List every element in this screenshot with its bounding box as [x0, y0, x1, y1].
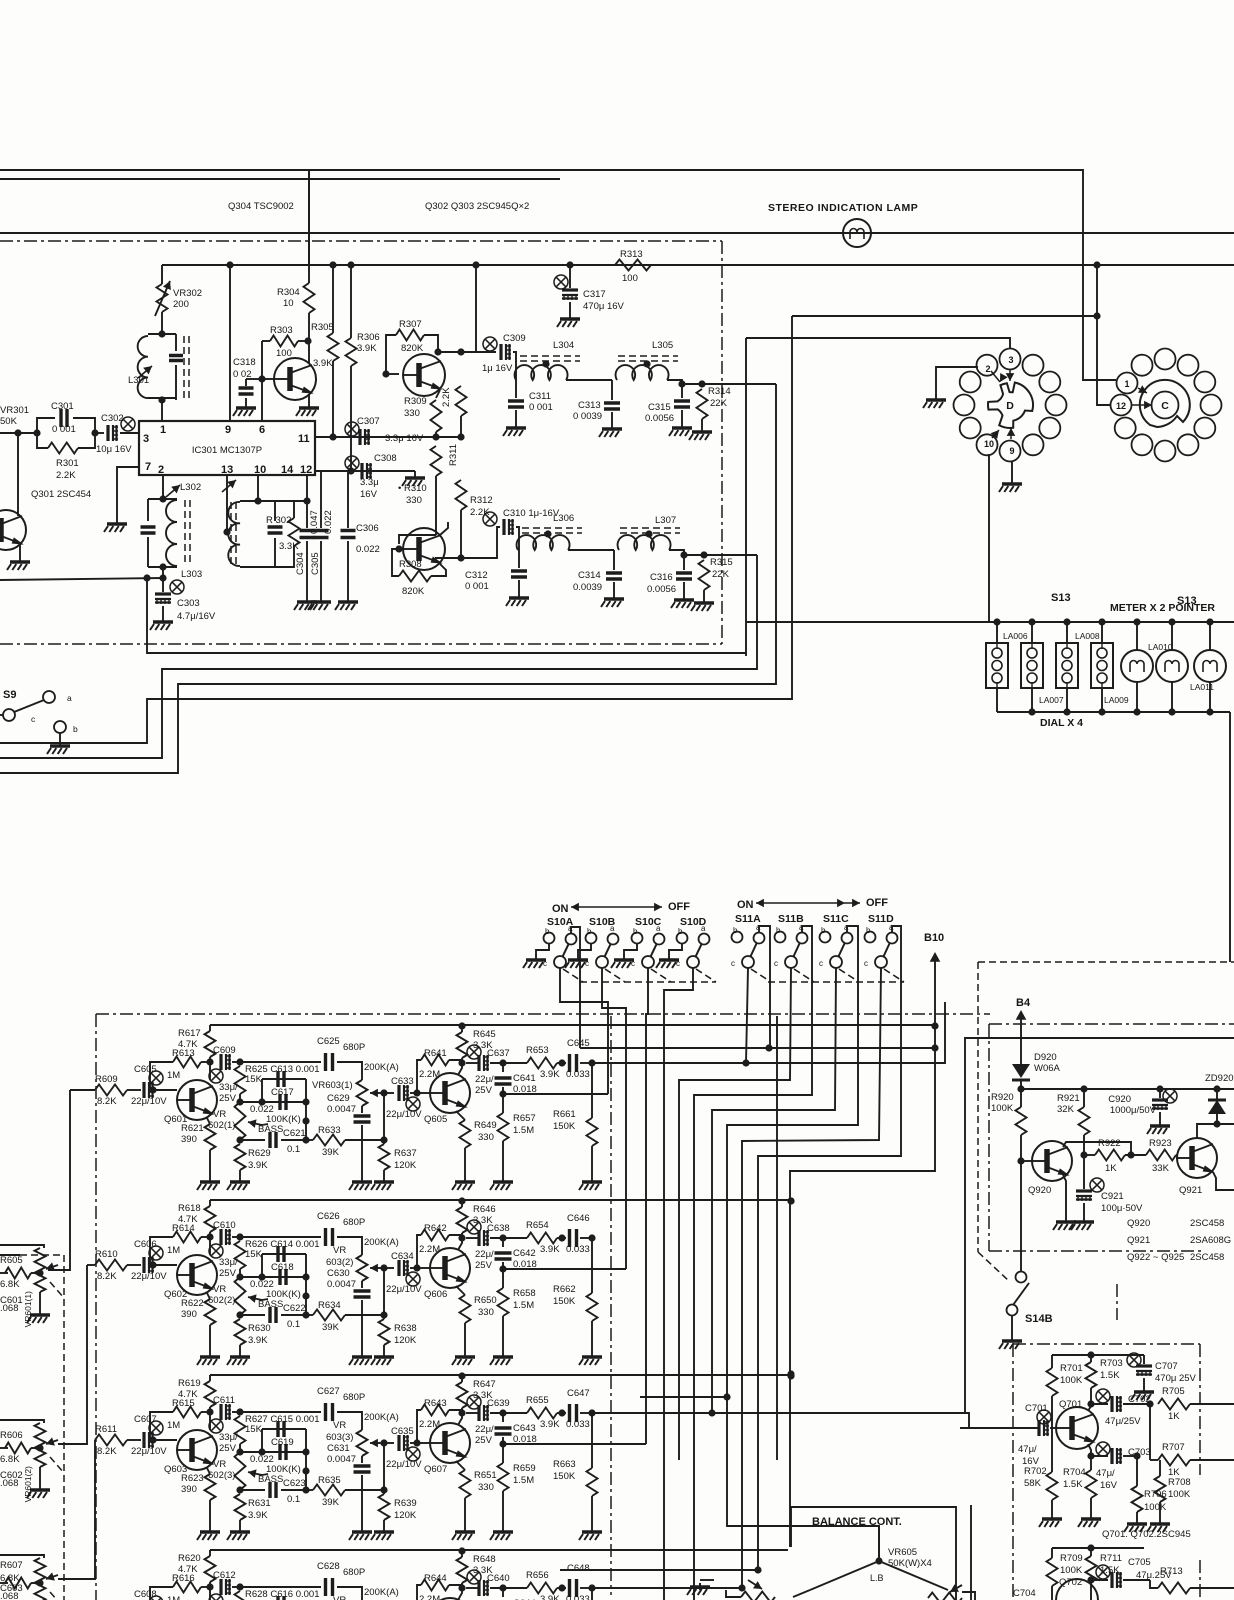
resistor R631 3.9K — [235, 1494, 246, 1520]
svg-text:Q607: Q607 — [424, 1464, 447, 1475]
svg-text:32K: 32K — [1057, 1104, 1075, 1115]
svg-text:LA008: LA008 — [1075, 631, 1100, 641]
ground under C316 — [683, 596, 685, 600]
resistor R630 3.9K — [235, 1319, 246, 1345]
capacitor C609 electrolytic 33u — [209, 1062, 211, 1080]
wire D terminal 10 down to lamp rail — [988, 454, 990, 622]
svg-text:a: a — [701, 924, 706, 933]
svg-text:1μ 16V: 1μ 16V — [482, 363, 513, 374]
ground under C304 — [306, 598, 308, 602]
svg-text:ZD920: ZD920 — [1205, 1073, 1234, 1084]
ground under R659 — [502, 1528, 504, 1532]
svg-text:R654: R654 — [526, 1220, 549, 1231]
svg-text:1.5K: 1.5K — [1100, 1370, 1120, 1381]
svg-text:11: 11 — [298, 433, 310, 445]
resistor R609 8.2K input — [70, 1089, 95, 1091]
svg-text:C313: C313 — [578, 400, 601, 411]
resistor R655 3.9K — [527, 1408, 557, 1419]
transistor Q607 — [430, 1423, 470, 1463]
capacitor C316 — [683, 555, 685, 570]
ground under C303 — [162, 618, 164, 622]
ground under C921 — [1083, 1218, 1085, 1222]
resistor R625 15K — [235, 1066, 246, 1094]
svg-text:22K: 22K — [712, 569, 730, 580]
rotor of D section — [988, 383, 1033, 429]
svg-text:LA006: LA006 — [1003, 631, 1028, 641]
wire: S11A c-contact tap to ch1 output — [746, 968, 748, 1063]
svg-text:R301: R301 — [56, 458, 79, 469]
svg-text:R713: R713 — [1160, 1566, 1183, 1577]
capacitor C303 electrolytic — [162, 578, 164, 592]
resistor R634 39K — [306, 1314, 313, 1316]
resistor R621 390 emitter — [207, 1118, 210, 1124]
resistor R607 6.8K — [0, 1582, 8, 1584]
svg-text:VR: VR — [213, 1109, 226, 1120]
svg-text:0.0056: 0.0056 — [647, 584, 676, 595]
svg-text:C639: C639 — [487, 1398, 510, 1409]
ground under R637 — [383, 1178, 385, 1182]
wire to D terminal 2 with ground — [936, 367, 978, 396]
potentiometer VR601(3) — [35, 1558, 46, 1580]
capacitor C627 680P — [240, 1411, 321, 1413]
capacitor C606 electrolytic input — [127, 1264, 141, 1266]
ground under R622 — [209, 1353, 211, 1357]
svg-text:R644: R644 — [424, 1573, 447, 1584]
resistor R617 4.7K — [209, 1025, 211, 1031]
svg-text:16V: 16V — [1100, 1480, 1118, 1491]
resistor R619 4.7K — [209, 1375, 211, 1381]
wire Q921 emitter out — [1213, 1172, 1234, 1190]
resistor R705 1K — [1158, 1399, 1190, 1410]
svg-text:c: c — [864, 959, 868, 968]
svg-text:390: 390 — [181, 1484, 197, 1495]
capacitor C921 electrolytic 100u/50V — [1090, 1178, 1104, 1192]
svg-text:VR605: VR605 — [888, 1547, 917, 1558]
chain-line: MPX block boundary top — [0, 240, 722, 242]
svg-text:OFF: OFF — [668, 901, 690, 913]
resistor R639 120K — [383, 1443, 385, 1494]
svg-text:0.033: 0.033 — [566, 1244, 590, 1255]
lamp LA007 — [1028, 618, 1035, 625]
svg-text:10μ 16V: 10μ 16V — [96, 444, 132, 455]
ground under R661 — [591, 1178, 593, 1182]
resistor R649 330 emitter — [456, 1111, 465, 1120]
wire: aux line y1397 — [640, 1396, 727, 1398]
svg-text:LA009: LA009 — [1104, 695, 1129, 705]
IC301 MC1307P body — [139, 421, 315, 475]
svg-text:c: c — [774, 959, 778, 968]
svg-text:R709: R709 — [1060, 1553, 1083, 1564]
ground under Q301 emitter — [19, 544, 21, 558]
svg-text:R305: R305 — [311, 322, 334, 333]
svg-text:VR603(1): VR603(1) — [312, 1080, 353, 1091]
wire: lamp feed to D terminal 3 — [746, 338, 1010, 349]
resistor R662 150K — [591, 1238, 593, 1293]
svg-text:R306: R306 — [357, 332, 380, 343]
svg-text:680P: 680P — [343, 1392, 365, 1403]
svg-text:150K: 150K — [553, 1121, 576, 1132]
node on rail above collector feed — [472, 261, 479, 268]
svg-text:R634: R634 — [318, 1300, 341, 1311]
wire Q302 collector node — [434, 348, 441, 355]
resistor R651 330 emitter — [456, 1461, 465, 1470]
wire: a-bus line — [580, 1047, 935, 1049]
svg-text:2.2K: 2.2K — [56, 470, 76, 481]
lamp LA009 — [1098, 618, 1105, 625]
resistor R611 8.2K input — [94, 1439, 96, 1441]
wire top of VR601(2) — [0, 1420, 44, 1423]
lamp: stereo indication lamp — [843, 219, 871, 247]
svg-text:VR301: VR301 — [0, 405, 29, 416]
capacitor C644 0.018 — [502, 1588, 504, 1597]
wire: S11C a-contact bus to balance — [727, 926, 879, 1558]
transistor Q605 — [430, 1073, 470, 1113]
ground under R650 — [464, 1353, 466, 1357]
svg-text:1M: 1M — [167, 1245, 180, 1256]
svg-text:330: 330 — [404, 408, 420, 419]
wire Q606 collector — [458, 1238, 462, 1250]
svg-text:50K: 50K — [0, 416, 18, 427]
resistor R308 — [431, 564, 446, 576]
svg-text:VR: VR — [333, 1420, 346, 1431]
transistor Q608 — [430, 1598, 470, 1600]
svg-text:VR601(2): VR601(2) — [23, 1466, 33, 1503]
svg-text:2SA608G: 2SA608G — [1190, 1235, 1231, 1246]
resistor R661 150K — [591, 1063, 593, 1118]
svg-text:C707: C707 — [1155, 1361, 1178, 1372]
svg-text:C629: C629 — [327, 1093, 350, 1104]
svg-text:3.9K: 3.9K — [248, 1335, 268, 1346]
svg-text:1K: 1K — [1105, 1163, 1117, 1174]
svg-text:15K: 15K — [245, 1424, 263, 1435]
capacitor C611 electrolytic 33u — [209, 1412, 211, 1430]
svg-text:3.3K: 3.3K — [279, 541, 299, 552]
capacitor C313 — [611, 380, 613, 400]
node rail/lamp-switch feed — [1093, 261, 1100, 268]
wire: VR601(3) wiper to channel3 input — [58, 1440, 95, 1579]
node filter1 output — [678, 380, 685, 387]
svg-text:C920: C920 — [1108, 1094, 1131, 1105]
ground under Q920 emitter — [1063, 1175, 1066, 1218]
svg-text:C638: C638 — [487, 1223, 510, 1234]
svg-text:R921: R921 — [1057, 1093, 1080, 1104]
svg-text:1.5M: 1.5M — [513, 1300, 534, 1311]
svg-text:D920: D920 — [1034, 1052, 1057, 1063]
resistor R618 4.7K — [209, 1200, 211, 1206]
wire to terminal 12 — [1144, 401, 1152, 410]
svg-text:C305: C305 — [310, 552, 321, 575]
switch S14B — [1016, 1272, 1027, 1283]
svg-text:R711: R711 — [1100, 1553, 1122, 1564]
svg-text:39K: 39K — [322, 1147, 340, 1158]
node on rail above C317 — [566, 261, 573, 268]
ground under C318 — [245, 404, 247, 408]
wire: channel 2 supply rail — [210, 1199, 791, 1201]
ground for S10B b contact — [578, 944, 591, 956]
wire: S13-D line hairpin to left edge — [0, 318, 792, 743]
svg-text:200K(A): 200K(A) — [364, 1587, 399, 1598]
resistor R635 39K — [306, 1489, 313, 1491]
resistor R304 — [308, 170, 310, 283]
svg-text:C617: C617 — [271, 1087, 294, 1098]
capacitor C307 electrolytic — [315, 436, 461, 438]
svg-text:150K: 150K — [553, 1296, 576, 1307]
svg-text:3.9K: 3.9K — [313, 358, 333, 369]
wire top of VR601(1) — [0, 1245, 44, 1248]
svg-text:R650: R650 — [474, 1295, 497, 1306]
resistor R709 100K — [1051, 1548, 1053, 1558]
svg-text:C304: C304 — [295, 552, 306, 575]
wire node down to R707 — [1149, 1404, 1151, 1460]
svg-text:R646: R646 — [473, 1204, 496, 1215]
ground under S9 b — [59, 742, 61, 746]
svg-text:0.022: 0.022 — [356, 544, 380, 555]
ground under C631 — [361, 1528, 363, 1532]
svg-text:C647: C647 — [567, 1388, 590, 1399]
transistor Q601 — [177, 1080, 217, 1120]
capacitor C317 electrolytic — [569, 265, 571, 288]
resistor R638 120K — [383, 1268, 385, 1319]
node to R311 — [457, 348, 464, 355]
svg-text:R659: R659 — [513, 1463, 536, 1474]
potentiometer VR602(1) 100K(K) BASS — [235, 1102, 246, 1140]
svg-text:6.8K: 6.8K — [0, 1279, 20, 1290]
svg-text:22μ/10V: 22μ/10V — [386, 1284, 422, 1295]
svg-text:3.9K: 3.9K — [248, 1510, 268, 1521]
capacitor C622 0.1 — [240, 1314, 265, 1316]
svg-text:602(2): 602(2) — [208, 1295, 235, 1306]
ground under R702 — [1051, 1515, 1053, 1519]
svg-text:C605: C605 — [134, 1064, 157, 1075]
svg-text:C621: C621 — [283, 1128, 306, 1139]
svg-text:120K: 120K — [394, 1335, 417, 1346]
svg-text:200K(A): 200K(A) — [364, 1237, 399, 1248]
svg-text:R307: R307 — [399, 319, 422, 330]
svg-text:200: 200 — [173, 299, 189, 310]
svg-text:120K: 120K — [394, 1510, 417, 1521]
ground under C305 — [320, 598, 322, 602]
wire: VR301 to C301/R301 — [0, 432, 37, 434]
svg-text:C630: C630 — [327, 1268, 350, 1279]
wire L302 to C303 junction — [162, 567, 164, 578]
svg-text:b: b — [821, 926, 826, 935]
svg-text:2.2K: 2.2K — [441, 387, 452, 407]
resistor R610 8.2K input — [87, 1264, 95, 1266]
wire Q920 collector to R922/R923 node — [1063, 1142, 1131, 1155]
svg-text:0.1: 0.1 — [287, 1144, 300, 1155]
wire: balance box top — [791, 1507, 956, 1600]
wire: S11B a-contact bus — [694, 926, 812, 1600]
svg-text:10: 10 — [254, 464, 266, 476]
svg-text:47μ/: 47μ/ — [1096, 1468, 1115, 1479]
wire top of VR601(3) — [0, 1555, 44, 1558]
svg-text:C646: C646 — [567, 1213, 590, 1224]
wire B10 with arrow — [934, 958, 936, 1026]
svg-text:C648: C648 — [567, 1563, 590, 1574]
gang link dashes of VR601(3) — [50, 1592, 64, 1600]
resistor R633 39K — [306, 1139, 313, 1141]
svg-text:C643: C643 — [513, 1423, 536, 1434]
capacitor C707 electrolytic 470u — [1127, 1353, 1141, 1367]
capacitor C647 0.033 — [570, 1404, 577, 1422]
resistor R641 2.2M — [417, 1060, 421, 1093]
ground under R621 — [209, 1178, 211, 1182]
resistor R657 1.5M — [502, 1094, 504, 1113]
svg-text:33K: 33K — [1152, 1163, 1170, 1174]
svg-text:b: b — [678, 927, 683, 936]
capacitor C920 electrolytic 1000u/50V — [1163, 1089, 1177, 1103]
svg-text:R708: R708 — [1168, 1477, 1191, 1488]
ground under R658 — [502, 1353, 504, 1357]
svg-text:R619: R619 — [178, 1378, 201, 1389]
wire Q701 collector — [1088, 1404, 1091, 1411]
svg-text:47μ/: 47μ/ — [1018, 1444, 1037, 1455]
svg-text:22μ/10V: 22μ/10V — [386, 1459, 422, 1470]
svg-text:C302: C302 — [101, 413, 124, 424]
wire: top supply line to lamp switch — [0, 170, 1106, 380]
svg-text:C633: C633 — [391, 1076, 414, 1087]
ground under R706 — [1136, 1520, 1138, 1524]
svg-text:c: c — [731, 959, 735, 968]
capacitor C314 — [613, 550, 615, 570]
wire: second buffer rail — [1052, 1547, 1144, 1549]
wire filter1 baseline — [513, 352, 516, 380]
svg-text:C921: C921 — [1101, 1191, 1124, 1202]
svg-text:58K: 58K — [1024, 1478, 1042, 1489]
wire: vertical bus 777 lower half — [776, 1016, 778, 1460]
capacitor C629 0.0047 — [361, 1106, 363, 1113]
capacitor C645 0.033 — [570, 1054, 577, 1072]
svg-text:820K: 820K — [401, 343, 424, 354]
gang link dashes of VR601(2) — [50, 1457, 64, 1473]
capacitor C306 — [347, 471, 349, 528]
wire: bottom rail down right edge — [1229, 712, 1231, 962]
svg-text:C631: C631 — [327, 1443, 350, 1454]
svg-text:C612: C612 — [213, 1570, 236, 1581]
svg-text:0 0039: 0 0039 — [573, 411, 602, 422]
svg-text:C606: C606 — [134, 1239, 157, 1250]
transistor Q302 — [403, 354, 445, 396]
svg-text:C301: C301 — [51, 401, 74, 412]
wire: S11D a-contact bus — [758, 926, 901, 1570]
transistor Q921 — [1177, 1138, 1217, 1178]
ground under C314 — [613, 595, 615, 599]
wire: filter2 output hairpin to left edge — [0, 555, 757, 758]
wire: ch4 output east — [592, 1587, 742, 1589]
svg-text:100μ·50V: 100μ·50V — [1101, 1203, 1143, 1214]
resistor R645 3.3K — [458, 1022, 465, 1029]
wire R920 node down to S14B — [1020, 1161, 1022, 1272]
wire C642 node to switch bus — [503, 1268, 626, 1270]
capacitor C634 electrolytic coupling — [384, 1267, 394, 1269]
svg-text:C610: C610 — [213, 1220, 236, 1231]
svg-text:22μ/10V: 22μ/10V — [386, 1109, 422, 1120]
svg-text:C315: C315 — [648, 402, 671, 413]
wire: S11A a-contact riser — [759, 926, 770, 1048]
capacitor C308 electrolytic — [315, 470, 415, 472]
wire Q303 collector to filter2 input — [440, 522, 448, 535]
svg-text:b: b — [545, 927, 550, 936]
svg-text:390: 390 — [181, 1134, 197, 1145]
resistor R706 100K — [1136, 1456, 1138, 1486]
svg-text:1M: 1M — [167, 1595, 180, 1600]
capacitor C309 electrolytic — [483, 337, 497, 351]
svg-text:VR601(1): VR601(1) — [23, 1291, 33, 1328]
transistor Q602 — [177, 1255, 217, 1295]
svg-text:C627: C627 — [317, 1386, 340, 1397]
potentiometer VR605 right half — [879, 1561, 948, 1590]
svg-text:820K: 820K — [402, 586, 425, 597]
svg-text:330: 330 — [478, 1482, 494, 1493]
svg-text:2: 2 — [158, 464, 164, 476]
svg-text:L304: L304 — [553, 340, 574, 351]
capacitor C312 — [518, 550, 520, 568]
chain-line: MPX block boundary right — [721, 241, 723, 644]
svg-text:1: 1 — [1124, 379, 1129, 389]
wire: S10D feed down to ch4 — [664, 968, 693, 1600]
svg-text:b: b — [866, 926, 871, 935]
svg-text:10: 10 — [984, 439, 994, 449]
svg-text:C316: C316 — [650, 572, 673, 583]
svg-text:0.022: 0.022 — [323, 510, 334, 534]
wire: S10A feed down to ch1 — [560, 968, 608, 1094]
ground under R315 — [703, 599, 705, 603]
trimmer VR302 — [161, 265, 163, 284]
svg-text:0.1: 0.1 — [287, 1494, 300, 1505]
svg-text:R620: R620 — [178, 1553, 201, 1564]
wire: lamp bottom rail — [996, 688, 998, 712]
svg-text:b: b — [733, 926, 738, 935]
resistor R629 3.9K — [235, 1144, 246, 1170]
wire: pin9 to rail — [229, 265, 231, 421]
ground on C308 line — [414, 471, 416, 474]
wire: rail to crossing vertical — [475, 265, 477, 352]
svg-text:C609: C609 — [213, 1045, 236, 1056]
svg-text:0 001: 0 001 — [529, 402, 553, 413]
wire Q608 collector — [458, 1588, 462, 1600]
svg-text:Q701: Q701 — [1059, 1399, 1082, 1410]
svg-text:4.7μ/16V: 4.7μ/16V — [177, 611, 216, 622]
svg-text:22K: 22K — [710, 398, 728, 409]
dashed box: power supply block — [978, 961, 1234, 963]
svg-text:C314: C314 — [578, 570, 601, 581]
transistor Q304 — [274, 358, 316, 400]
svg-text:R655: R655 — [526, 1395, 549, 1406]
svg-text:3.9K: 3.9K — [540, 1069, 560, 1080]
svg-text:R922: R922 — [1098, 1138, 1121, 1149]
resistor R626 15K — [235, 1241, 246, 1269]
svg-text:R607: R607 — [0, 1560, 23, 1571]
wire C641 node to switch bus — [503, 1093, 608, 1095]
svg-text:0 001: 0 001 — [52, 424, 76, 435]
wire: B10 bus down collecting channel rails — [790, 1026, 935, 1547]
ground under S14B — [1011, 1337, 1013, 1341]
svg-text:C311: C311 — [529, 391, 551, 402]
ground under R630 — [239, 1353, 241, 1357]
svg-text:25V: 25V — [475, 1260, 493, 1271]
resistor R711 1.5K — [1090, 1548, 1092, 1556]
svg-text:603(3): 603(3) — [326, 1432, 353, 1443]
svg-text:R622: R622 — [181, 1298, 204, 1309]
svg-text:100K: 100K — [1144, 1502, 1167, 1513]
ground under C306 — [347, 598, 349, 602]
ground under R638 — [383, 1353, 385, 1357]
transistor Q303 — [403, 528, 445, 570]
chain-line: tone block boundary — [96, 1013, 990, 1015]
ground under R631 — [239, 1528, 241, 1532]
gang link dashes of VR601(1) — [50, 1282, 64, 1298]
svg-text:3.9K: 3.9K — [540, 1244, 560, 1255]
